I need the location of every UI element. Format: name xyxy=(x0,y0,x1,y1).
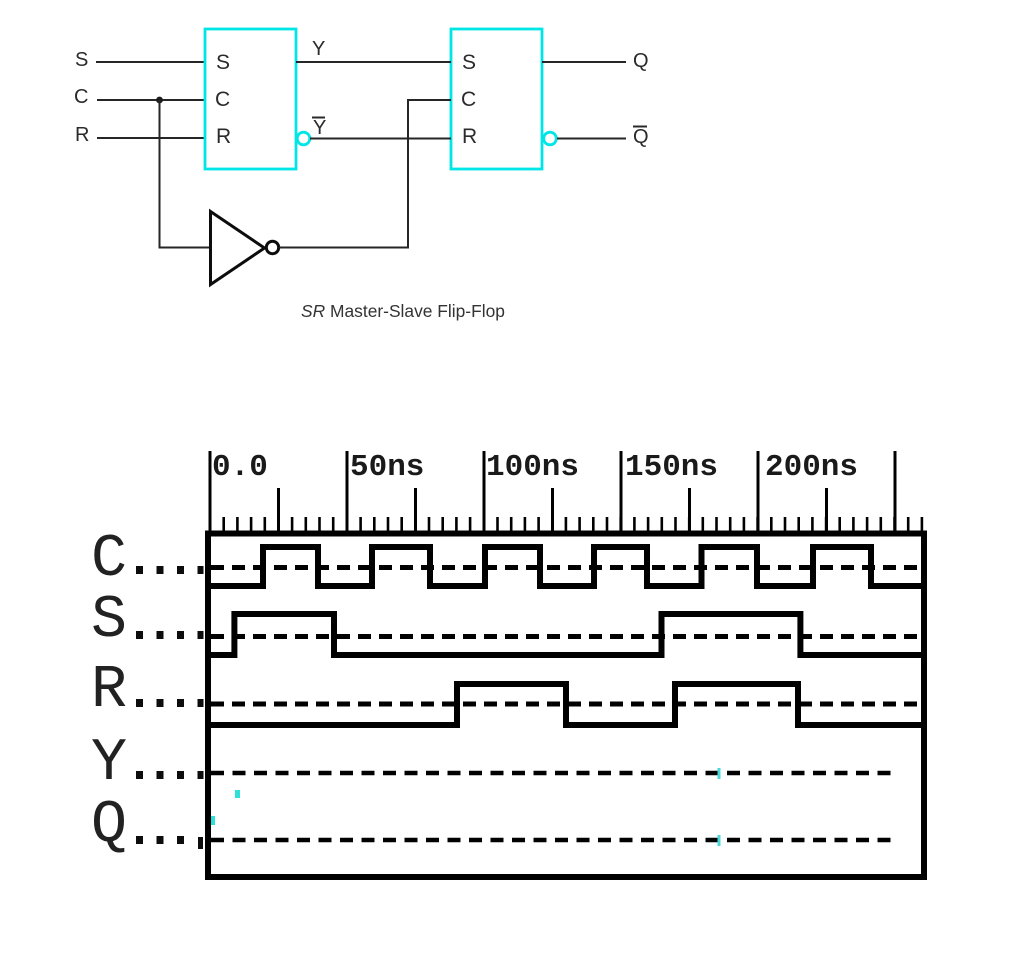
U1 inverted output bubble xyxy=(297,132,310,145)
plot border frame xyxy=(208,534,924,878)
svg-text:S: S xyxy=(462,51,476,74)
svg-text:Q: Q xyxy=(91,792,127,860)
reference dashed line Q xyxy=(211,838,896,843)
time axis minor ticks xyxy=(210,517,922,533)
svg-text:C: C xyxy=(91,526,127,594)
wire Q output xyxy=(542,61,626,63)
svg-text:Y: Y xyxy=(313,117,326,139)
svg-text:S: S xyxy=(91,587,127,655)
inverter U3 triangle xyxy=(211,212,265,285)
cyan event mark Q row at 185ns xyxy=(718,835,721,846)
waveform R xyxy=(211,684,921,725)
svg-text:150ns: 150ns xyxy=(625,450,718,485)
svg-text:C: C xyxy=(215,88,230,111)
leader dots S xyxy=(136,631,204,639)
wire Q-bar output xyxy=(557,138,626,140)
reference dashed line S xyxy=(211,634,921,639)
svg-text:R: R xyxy=(91,657,127,725)
wire C to inverter (vertical) xyxy=(159,100,161,249)
svg-text:100ns: 100ns xyxy=(486,450,579,485)
svg-text:R: R xyxy=(75,124,89,146)
svg-text:50ns: 50ns xyxy=(350,450,424,485)
svg-text:C: C xyxy=(74,86,88,108)
wire inverter output vertical up xyxy=(407,99,409,249)
leader dots R xyxy=(136,699,204,707)
leader dots Y xyxy=(136,771,204,779)
svg-text:Q: Q xyxy=(633,50,649,72)
reference dashed line R xyxy=(211,702,921,707)
node C junction xyxy=(156,97,163,104)
svg-text:R: R xyxy=(216,125,231,148)
svg-text:Y: Y xyxy=(312,38,325,60)
svg-text:SR Master-Slave Flip-Flop: SR Master-Slave Flip-Flop xyxy=(301,301,505,321)
cyan event mark Y row left xyxy=(235,790,240,798)
svg-text:Q: Q xyxy=(633,126,649,148)
wire inverter output xyxy=(280,247,409,249)
cyan event mark Y row at 185ns xyxy=(718,768,721,779)
svg-text:C: C xyxy=(461,88,476,111)
waveform C xyxy=(211,547,921,586)
svg-text:0.0: 0.0 xyxy=(212,450,268,485)
U2 inverted output bubble xyxy=(544,132,557,145)
wire S input xyxy=(96,61,205,63)
svg-text:R: R xyxy=(462,125,477,148)
wire into inverter xyxy=(160,247,211,249)
time axis medium ticks xyxy=(279,488,827,533)
wire Y-bar (U1 bubble to U2 R) xyxy=(310,138,451,140)
wire to U2 C input xyxy=(407,99,451,101)
wire R input xyxy=(97,137,205,139)
svg-text:S: S xyxy=(75,49,88,71)
leader dots Q xyxy=(136,836,203,849)
latch U2 (slave) box xyxy=(451,29,542,169)
reference dashed line C xyxy=(211,565,921,570)
reference dashed line Y xyxy=(211,771,896,776)
inverter U3 bubble xyxy=(266,241,278,253)
leader dots C xyxy=(136,566,204,574)
svg-text:Y: Y xyxy=(91,730,127,798)
svg-text:S: S xyxy=(216,51,230,74)
time axis major ticks xyxy=(210,451,895,533)
wire Y (U1 to U2) xyxy=(296,61,451,63)
wire C input xyxy=(97,99,205,101)
cyan event mark Q row left xyxy=(211,816,215,825)
svg-text:200ns: 200ns xyxy=(765,450,858,485)
latch U1 (master) box xyxy=(205,29,296,169)
waveform S xyxy=(211,614,921,655)
